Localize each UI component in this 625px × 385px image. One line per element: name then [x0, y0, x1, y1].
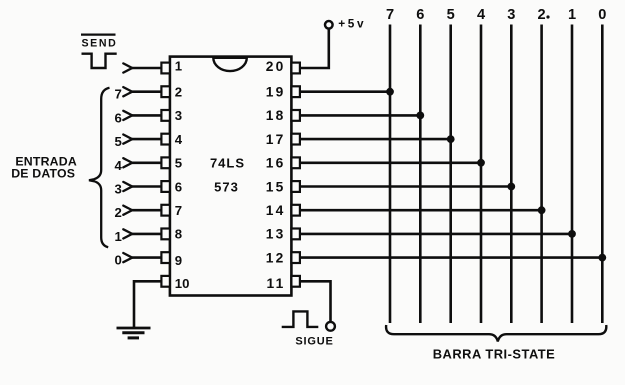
- svg-text:5: 5: [175, 156, 182, 171]
- svg-text:1: 1: [175, 59, 182, 74]
- svg-text:16: 16: [266, 156, 286, 171]
- svg-text:SIGUE: SIGUE: [295, 336, 333, 348]
- svg-text:573: 573: [214, 179, 239, 194]
- svg-text:1: 1: [568, 7, 576, 23]
- svg-text:0: 0: [598, 7, 606, 23]
- svg-text:3: 3: [175, 108, 182, 123]
- svg-text:17: 17: [266, 132, 286, 147]
- svg-text:3: 3: [114, 182, 121, 197]
- svg-text:20: 20: [266, 59, 286, 74]
- svg-text:12: 12: [266, 250, 286, 265]
- svg-text:6: 6: [114, 110, 121, 125]
- svg-text:0: 0: [114, 253, 121, 268]
- svg-text:1: 1: [114, 229, 121, 244]
- svg-text:19: 19: [266, 85, 286, 100]
- svg-text:2: 2: [538, 7, 546, 23]
- svg-text:10: 10: [175, 276, 190, 291]
- svg-text:2: 2: [175, 85, 182, 100]
- svg-text:13: 13: [266, 227, 286, 242]
- svg-text:5: 5: [114, 134, 121, 149]
- svg-text:8: 8: [175, 227, 182, 242]
- svg-text:74LS: 74LS: [210, 156, 245, 171]
- svg-text:5: 5: [447, 7, 455, 23]
- svg-text:3: 3: [507, 7, 515, 23]
- svg-text:2: 2: [114, 205, 121, 220]
- svg-text:SEND: SEND: [82, 37, 118, 49]
- svg-text:DE DATOS: DE DATOS: [11, 167, 75, 181]
- svg-text:BARRA TRI-STATE: BARRA TRI-STATE: [433, 346, 556, 361]
- svg-text:4: 4: [175, 132, 183, 147]
- svg-text:9: 9: [175, 253, 182, 268]
- svg-text:4: 4: [114, 158, 122, 173]
- svg-text:+5v: +5v: [338, 17, 366, 31]
- svg-text:11: 11: [267, 276, 286, 291]
- svg-text:7: 7: [114, 87, 121, 102]
- svg-text:14: 14: [266, 203, 286, 218]
- svg-text:6: 6: [416, 7, 424, 23]
- svg-text:7: 7: [175, 203, 182, 218]
- svg-text:18: 18: [266, 108, 286, 123]
- svg-text:15: 15: [266, 179, 286, 194]
- svg-text:7: 7: [386, 7, 394, 23]
- svg-text:6: 6: [175, 179, 182, 194]
- svg-text:4: 4: [477, 7, 486, 23]
